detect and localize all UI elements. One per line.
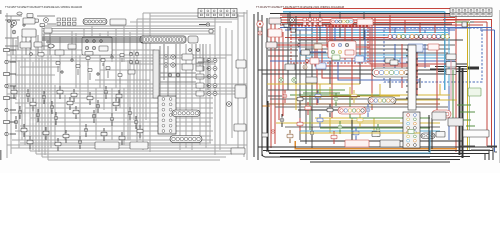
wire joint 7 xyxy=(55,142,61,146)
wire right red drops xyxy=(330,15,435,68)
wire green pair line xyxy=(468,22,470,150)
bottom tiny d xyxy=(262,133,268,137)
mid bullet 1 xyxy=(61,71,63,73)
wire black blob feeders xyxy=(430,64,468,72)
relay lamp 5b xyxy=(213,92,217,96)
bullet pair a1 xyxy=(129,52,132,55)
bullet pair b2 xyxy=(135,60,138,63)
coupler D xyxy=(170,136,202,143)
colour component 18 xyxy=(327,108,333,112)
colour component 10 xyxy=(338,125,342,129)
wire blue corner turn xyxy=(480,29,495,31)
wire right heavy black bundle xyxy=(460,66,463,158)
meter connector grid xyxy=(57,18,76,25)
right column box 4 xyxy=(231,148,245,154)
wire stator joint lead xyxy=(129,107,131,120)
wire yellow bottom run xyxy=(300,132,420,134)
wire sidestand switch lead xyxy=(59,86,61,99)
relay lamp 3a xyxy=(207,75,211,79)
wire wire joint 3 lead xyxy=(115,98,117,111)
flasher ellipse xyxy=(48,44,54,48)
wire colour component 12 lead xyxy=(289,130,291,143)
left margin device 4 xyxy=(5,84,8,87)
relay block 4 xyxy=(196,83,204,88)
lighting coil xyxy=(110,117,114,121)
wire right black low run xyxy=(300,140,463,142)
mid tiny 4 xyxy=(88,69,92,72)
starter contact 2c xyxy=(338,50,341,53)
relay block 1 xyxy=(196,58,204,63)
wire right black drops xyxy=(290,13,420,89)
relay lamp 4a xyxy=(207,84,211,88)
key cylinder xyxy=(34,42,42,47)
wire right black interleave xyxy=(282,16,452,24)
wire cyan bottom run xyxy=(350,131,430,153)
relay lamp 1b xyxy=(213,59,217,63)
wire joint 1 xyxy=(67,101,73,105)
left margin device 1 xyxy=(4,48,10,51)
left margin device 5 xyxy=(4,96,10,99)
mid tiny 1 xyxy=(56,62,60,65)
dimmer contact 3c xyxy=(345,43,348,46)
engine stop switch (colour) xyxy=(345,50,354,55)
wire colour component 19 lead xyxy=(367,104,369,117)
charge coil xyxy=(92,114,96,118)
wire right cyan verticals xyxy=(445,33,449,91)
wire blue vertical right xyxy=(494,30,496,152)
colour component 12 xyxy=(287,134,293,138)
right upper green box xyxy=(468,88,481,96)
TL small box xyxy=(38,53,44,57)
wire right top bus blue xyxy=(280,28,492,31)
wire right blue bends xyxy=(300,44,420,80)
tall junction strip (colour) xyxy=(408,45,416,110)
wire brake lamp switch lead xyxy=(118,90,120,103)
wire pink vertical xyxy=(450,60,452,100)
wire right black rounded L2 xyxy=(268,101,380,153)
horn switch xyxy=(44,28,52,33)
wire right brown bus xyxy=(267,103,440,105)
bottom tiny f xyxy=(408,130,414,134)
mid tiny 2 xyxy=(76,65,80,68)
wire right blue dashed frame xyxy=(384,28,482,82)
tiny device b xyxy=(291,29,296,32)
resistor xyxy=(68,44,76,49)
wire colour component 16 lead xyxy=(377,124,379,137)
right bottom box xyxy=(448,118,463,126)
coupler strip end cap xyxy=(188,36,198,43)
wire right blue drops xyxy=(335,28,425,69)
wire wire joint 6 lead xyxy=(29,136,31,149)
speedometer unit (colour) xyxy=(357,19,373,25)
wire crank sensor lead xyxy=(23,124,25,137)
wire color legend table xyxy=(198,9,237,18)
wire left vertical harness runs xyxy=(7,10,247,160)
wire colour component 10 lead xyxy=(339,121,341,134)
meter connector grid (colour) xyxy=(303,18,322,25)
dimmer contact 1c xyxy=(331,43,334,46)
colour component 4 xyxy=(334,97,338,101)
flasher L (colour) xyxy=(279,78,283,82)
wire wire joint 2 lead xyxy=(97,100,99,113)
fuse 2 xyxy=(54,116,58,120)
wire right cyan low xyxy=(300,130,440,132)
wire left margin lead 6 xyxy=(10,109,17,111)
colour component 17 xyxy=(305,106,311,110)
wire colour legend (colour) xyxy=(450,8,492,16)
mid bullet 2 xyxy=(71,59,73,61)
wire red vertical right xyxy=(486,22,488,146)
wire frame ground lead xyxy=(103,128,105,141)
wire right black bends xyxy=(268,50,300,96)
wire pickup coil lead xyxy=(75,106,77,119)
wire right outer frame xyxy=(254,12,267,160)
headlight (colour) xyxy=(257,21,263,27)
wire right top cyan run xyxy=(283,11,445,13)
wire right top bus red xyxy=(280,15,483,38)
wire colour component 1 lead xyxy=(284,90,286,103)
wire wire joint 8 lead xyxy=(79,136,81,149)
wire strip pins xyxy=(406,50,418,98)
colour component 13 xyxy=(310,131,314,135)
spare fuse xyxy=(209,30,213,34)
joint connector block (colour) xyxy=(403,112,420,148)
wire right black seg xyxy=(351,120,353,146)
right column box 3 xyxy=(234,124,246,131)
flasher R xyxy=(104,90,108,94)
ignition coil xyxy=(182,54,193,60)
TL connector xyxy=(27,14,33,18)
wire colour component 8 lead xyxy=(299,118,301,131)
colour component 14 xyxy=(331,135,337,139)
CDI magneto xyxy=(95,142,119,149)
wire right red box outline xyxy=(291,26,368,63)
small connector (colour) xyxy=(462,22,467,27)
headlight bulb xyxy=(11,20,16,25)
joint bullet TR xyxy=(206,23,209,26)
speedometer unit xyxy=(110,19,126,25)
mid tiny 7 xyxy=(120,54,124,57)
wire joint 4 xyxy=(134,120,138,124)
TL tiny box b xyxy=(40,24,45,27)
main switch xyxy=(20,42,31,48)
dimmer contact 3 xyxy=(99,39,102,42)
engine stop switch xyxy=(99,46,108,51)
wire engine ground lead xyxy=(121,132,123,145)
colour box m2 xyxy=(332,55,340,60)
wire right inner verticals xyxy=(300,22,312,148)
right mid box xyxy=(432,112,446,120)
wire right frame red verticals xyxy=(271,20,283,148)
tiny bullet a xyxy=(298,44,301,47)
labeled box r1 xyxy=(446,54,456,60)
wire right midband mesh xyxy=(268,43,330,47)
tiny bullet b xyxy=(306,60,309,63)
wire right black verticals 2 xyxy=(288,13,364,91)
wire wire joint 5 lead xyxy=(15,116,17,129)
wire joint 6 xyxy=(27,140,33,144)
wire colour component 17 lead xyxy=(307,102,309,115)
relay lamp 4b xyxy=(213,84,217,88)
left edge small box xyxy=(128,70,135,74)
handlebar switch housing (colour) xyxy=(328,41,356,58)
colour box m1 xyxy=(310,58,319,64)
dimmer contact 2c xyxy=(338,43,341,46)
wire red corner turns xyxy=(474,21,487,23)
headlight coupler xyxy=(23,18,35,24)
relay lamp 3b xyxy=(213,75,217,79)
wire right black mid bus xyxy=(258,70,455,74)
resistor (colour) xyxy=(314,44,322,49)
wire left page edge mark xyxy=(0,150,2,160)
wire starter lead lead xyxy=(37,109,39,122)
wire right blue vertical mid xyxy=(449,28,470,140)
wire colour component 4 lead xyxy=(335,93,337,106)
wire right top red run xyxy=(283,8,456,10)
CDI unit (colour) xyxy=(408,44,423,52)
wire wire joint 4 lead xyxy=(135,116,137,129)
starter relay (colour) xyxy=(285,64,295,70)
relay assy (colour) xyxy=(306,77,317,83)
rectifier regulator xyxy=(182,64,193,70)
wire starter relay lead xyxy=(43,91,45,104)
wire colour component 5 lead xyxy=(353,90,355,103)
horn xyxy=(44,18,49,23)
wire joint 2 xyxy=(96,104,100,108)
left margin device 8 xyxy=(5,132,8,135)
starter contact 1c xyxy=(331,50,334,53)
wire right yellow runs BR xyxy=(380,95,457,100)
labeled box r2 xyxy=(446,62,456,68)
diode (colour) xyxy=(303,65,307,69)
wire relay joint lead xyxy=(51,101,53,114)
CDI pin 4 xyxy=(171,63,175,67)
wire colour component 3 lead xyxy=(317,90,319,103)
wire diode 2 lead xyxy=(19,106,21,119)
wire right black mid thick xyxy=(298,109,362,111)
pickup coil xyxy=(73,110,79,114)
wire right black thin mesh xyxy=(300,45,455,53)
wire joint 8 xyxy=(78,140,82,144)
colour component 6 xyxy=(369,97,375,101)
diode 1 xyxy=(26,93,30,97)
wire charge coil lead xyxy=(93,110,95,123)
main switch (colour) xyxy=(266,42,277,48)
wire left margin lead 7 xyxy=(10,121,17,123)
wire right orange upper stub xyxy=(262,100,270,106)
mid tiny 5 xyxy=(101,59,105,62)
starter relay xyxy=(42,95,46,99)
meter coupler pill (colour) xyxy=(330,19,354,25)
right column box 2 xyxy=(235,85,246,98)
horn (colour) xyxy=(290,18,295,23)
wire right red bends xyxy=(315,40,448,78)
wire right red frame xyxy=(443,20,492,149)
flasher R (colour) xyxy=(292,78,296,82)
relay lamp 5a xyxy=(207,92,211,96)
CDI pin 2 xyxy=(171,55,175,59)
diode 2 xyxy=(18,110,22,114)
labeled box r3 xyxy=(446,69,456,75)
CDI magneto (colour) xyxy=(345,140,369,147)
bottom tiny e xyxy=(271,130,274,133)
joint bullet 1 xyxy=(168,73,171,76)
engine ground xyxy=(119,136,125,140)
wire green pair mid xyxy=(300,90,345,93)
left margin device 7 xyxy=(4,120,10,123)
relay block 3 xyxy=(196,74,204,79)
headlight coupler (colour) xyxy=(269,18,281,24)
starter lead xyxy=(36,113,40,117)
relay block 2 xyxy=(196,66,204,71)
TL bullet d xyxy=(23,24,25,26)
battery minus xyxy=(137,129,143,133)
flasher L xyxy=(87,96,93,100)
clutch switch xyxy=(85,52,93,56)
wire right yellow mesh xyxy=(310,118,400,133)
bullet TL c xyxy=(30,53,33,56)
wire rectifier lead xyxy=(73,89,75,102)
position lamp xyxy=(12,30,16,34)
wire colour component 6 lead xyxy=(371,93,373,106)
wire left TL mesh xyxy=(5,16,56,55)
wire black blob bundle xyxy=(468,66,479,69)
relay lamp 1a xyxy=(207,59,211,63)
thermo switch xyxy=(43,131,49,135)
wire right page edge shadow xyxy=(498,10,500,163)
wire right red bundle vertical xyxy=(455,9,457,152)
colour component 19 xyxy=(366,108,370,112)
wire lighting coil lead xyxy=(111,113,113,126)
sensor box a xyxy=(385,58,394,63)
frame ground xyxy=(101,132,107,136)
mini legend box xyxy=(463,130,489,137)
colour component 9 xyxy=(317,118,323,122)
wire red cluster frame xyxy=(327,27,370,47)
flasher relay xyxy=(22,29,36,37)
wire flasher L lead xyxy=(89,92,91,105)
relay lamp 2b xyxy=(213,67,217,71)
rectifier (colour) xyxy=(316,63,326,69)
brake lamp switch xyxy=(116,94,122,98)
mid bullet 4 xyxy=(111,56,113,58)
colour component 5 xyxy=(351,94,357,98)
wire left page edge mark 2 xyxy=(0,10,2,14)
bullet TL b xyxy=(11,25,14,28)
wire brown mid xyxy=(300,96,360,98)
wire left margin lead 2 xyxy=(10,61,17,63)
TL tiny box a xyxy=(34,19,39,22)
wire neutral switch lead xyxy=(13,86,15,99)
flasher relay (colour) xyxy=(268,29,282,37)
wire right yellow drops xyxy=(320,84,440,100)
wire right black lower mesh xyxy=(270,99,448,127)
wire ground joint 1 lead xyxy=(85,124,87,137)
wire colour component 18 lead xyxy=(329,104,331,117)
wire right yellow bus xyxy=(267,83,360,85)
AC magneto (colour) xyxy=(380,140,400,147)
svg-text:TT-R125/TT-R125E/TT-R125LW/TT-: TT-R125/TT-R125E/TT-R125LW/TT-R125LWE EC… xyxy=(5,5,82,9)
main harness coupler strip xyxy=(140,36,186,43)
colour box m3 xyxy=(355,56,364,62)
diode 3 xyxy=(63,134,69,138)
wire right mid blue bus xyxy=(270,60,455,62)
colour component 8 xyxy=(297,122,303,126)
front brake switch (colour) xyxy=(301,50,310,55)
wire right orange main run xyxy=(295,141,457,149)
wire battery minus lead xyxy=(139,125,141,138)
coupler C (colour) xyxy=(368,97,396,104)
starter contact 1 xyxy=(85,46,88,49)
wire diode 1 lead xyxy=(27,89,29,102)
crank sensor xyxy=(21,128,27,132)
colour box m4 xyxy=(390,60,398,65)
mid tiny 3 xyxy=(86,57,90,60)
wire right yellow bends xyxy=(296,84,400,110)
right column box 1 xyxy=(236,60,246,68)
relay lamp 2a xyxy=(207,67,211,71)
neutral switch xyxy=(11,90,17,94)
meter coupler pill xyxy=(83,19,107,25)
wire left margin lead 4 xyxy=(10,85,17,87)
clutch diode xyxy=(30,102,36,106)
colour component 7 xyxy=(280,118,284,122)
wire left horizontal harness runs xyxy=(7,13,247,160)
wire flasher R lead xyxy=(105,86,107,99)
coupler E (colour) xyxy=(338,107,366,114)
dimmer contact 2 xyxy=(92,39,95,42)
wire wire joint 7 lead xyxy=(57,138,59,151)
sidestand switch xyxy=(57,90,63,94)
wire mid tiny leads xyxy=(58,58,122,84)
starter contact 2 xyxy=(92,46,95,49)
main coupler pill (colour) xyxy=(372,68,416,77)
wire colour component 9 lead xyxy=(319,114,321,127)
bullet TL a xyxy=(8,20,11,23)
mid tiny 8 xyxy=(118,74,122,77)
wire right green bends xyxy=(310,95,430,130)
wire coupler feed bundle xyxy=(42,38,143,42)
handlebar switch housing xyxy=(82,37,112,55)
colour component 3 xyxy=(315,94,321,98)
wire right midband red xyxy=(270,44,330,46)
relay joint xyxy=(50,105,54,109)
wire left margin lead 3 xyxy=(10,73,17,75)
position lamp (colour) xyxy=(258,31,262,35)
tail lamp xyxy=(227,102,232,107)
wire left margin lead 1 xyxy=(10,49,17,51)
left margin device 2 xyxy=(5,60,8,63)
wire colour component 13 lead xyxy=(311,127,313,140)
ignition coil (colour) xyxy=(428,44,439,50)
wire joint 5 xyxy=(14,120,18,124)
wire colour component 11 lead xyxy=(359,114,361,127)
colour component 16 xyxy=(376,128,380,132)
wire bullet lead xyxy=(199,24,206,26)
colour component 15 xyxy=(353,131,359,135)
wire left margin lead 8 xyxy=(10,133,17,135)
wire left TR extra mesh xyxy=(160,44,213,96)
wire right yellow low bus xyxy=(276,122,440,124)
wire green vertical mid xyxy=(452,70,454,120)
wire right top bus cyan 2 xyxy=(290,34,448,36)
CDI pin 1 xyxy=(164,55,168,59)
joint connector block xyxy=(158,96,176,134)
wire right pink bus xyxy=(290,38,445,40)
wire wire joint 1 lead xyxy=(69,97,71,110)
bullet pair b1 xyxy=(129,60,132,63)
wire colour component 2 lead xyxy=(299,93,301,106)
